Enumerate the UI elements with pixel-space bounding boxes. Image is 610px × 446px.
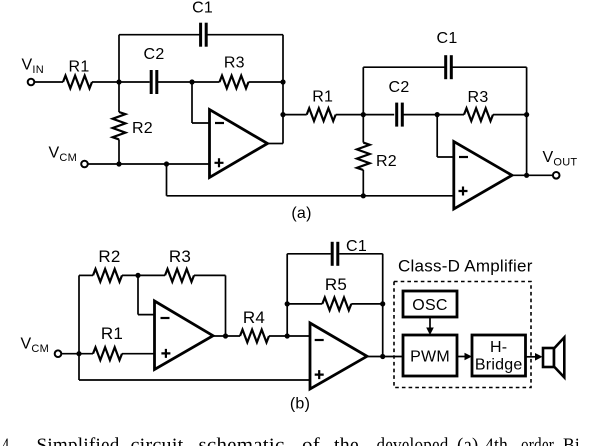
wire R1 to C2 (a, stage 2) (336, 114, 395, 116)
svg-text:C1: C1 (346, 238, 367, 255)
wire R4 to U4 inverting input (269, 335, 310, 337)
svg-text:Bi: Bi (563, 435, 580, 446)
junction node B (a, stage 1 inverting node) (189, 79, 194, 84)
U1 inverting pin mark (215, 122, 224, 124)
terminal VOUT (553, 172, 560, 179)
svg-text:R4: R4 (243, 308, 265, 327)
resistor R2 (a, stage 1) (113, 112, 126, 139)
junction feedback node (a, stage 2) (524, 112, 529, 117)
resistor R1 (b) (93, 347, 122, 360)
svg-text:developed: developed (377, 435, 449, 446)
wire C1 rail left (a, stage 2) (363, 66, 445, 68)
terminal VCM (b) (55, 350, 62, 357)
svg-text:OSC: OSC (412, 297, 447, 314)
wire feedback vertical (a, stage 2) (526, 67, 528, 175)
junction R2 bottom at VCM rail (116, 161, 121, 166)
svg-text:VIN: VIN (22, 57, 44, 77)
wire VCM rail to op-amp U1 noninverting input (88, 163, 210, 165)
dashed boundary Class-D Amplifier (394, 282, 531, 388)
svg-text:schematic: schematic (199, 435, 285, 446)
wire C2 to R3 (158, 81, 220, 83)
svg-text:C2: C2 (389, 79, 410, 96)
svg-text:R2: R2 (98, 247, 120, 266)
wire R3 feedback vertical (b) (225, 275, 227, 336)
terminal VCM (a) (81, 161, 88, 168)
wire VCM to node (b) (61, 353, 93, 355)
wire PWM to H-Bridge arrow (457, 356, 466, 358)
svg-text:of: of (302, 435, 320, 446)
junction U1 output to stage 2 (280, 112, 285, 117)
svg-text:R2: R2 (376, 153, 397, 170)
wire OSC to PWM arrow (429, 317, 431, 329)
resistor R1 (a, stage 1) (63, 76, 92, 89)
svg-text:4.: 4. (2, 435, 13, 446)
terminal VIN (28, 79, 35, 86)
wire VCM node down to bottom rail (b) (78, 354, 80, 380)
svg-text:VCM: VCM (49, 145, 78, 165)
svg-text:4th: 4th (485, 435, 508, 446)
op-amp U3 (b) (155, 301, 214, 370)
junction VCM node (b) (76, 351, 81, 356)
wire H-Bridge to speaker arrow (526, 356, 537, 358)
U4 noninverting pin mark (315, 370, 324, 379)
resistor R3 (a, stage 1) (220, 76, 249, 89)
wire R2 left lead (b) (79, 274, 93, 276)
resistor R2 (a, stage 2) bottom lead (362, 170, 364, 196)
wire VCM node up to R2 (b) (78, 275, 80, 353)
block H-Bridge (472, 335, 526, 376)
svg-text:C2: C2 (144, 46, 165, 63)
wire C1 rail right lead (b) (339, 253, 383, 255)
svg-text:R1: R1 (312, 89, 333, 106)
resistor R1 (a, stage 2) (307, 108, 336, 121)
svg-text:order: order (521, 435, 554, 446)
wire R3 to feedback node (a, stage 2) (493, 114, 527, 116)
wire R3 to feedback node (249, 81, 284, 83)
svg-text:R3: R3 (224, 55, 245, 72)
junction node A (a, stage 2 input node) (361, 112, 366, 117)
svg-text:Simplified: Simplified (37, 435, 120, 446)
svg-text:VOUT: VOUT (543, 149, 578, 169)
block PWM (403, 335, 457, 376)
wire node A up to C1 rail (a, stage 2) (362, 67, 364, 114)
wire U2 output to VOUT (512, 174, 553, 176)
wire into U1 inverting input (192, 122, 210, 124)
junction U2 output feedback (524, 173, 529, 178)
svg-text:VCM: VCM (21, 336, 50, 356)
op-amp U2 (a, stage 2) (454, 142, 512, 210)
junction R2-R3 node (b) (135, 273, 140, 278)
svg-text:R1: R1 (101, 324, 123, 343)
resistor R2 (a, stage 1) bottom lead (118, 139, 120, 164)
wire into U2 inverting input (437, 156, 454, 158)
wire R1 to C2 (92, 81, 150, 83)
wire C1 rail left (119, 34, 200, 36)
wire C1 rail left lead (b) (287, 253, 331, 255)
wire R1 to U3 noninverting input (122, 353, 155, 355)
resistor R2 (a, stage 1) top lead (118, 82, 120, 112)
capacitor C1 (a, stage 1) (199, 23, 202, 47)
capacitor C2 (a, stage 1) (150, 70, 153, 94)
wire VCM branch down (166, 164, 168, 196)
capacitor C1 (a, stage 2) (444, 55, 447, 79)
junction node A (a, stage 1 input node) (116, 79, 121, 84)
op-amp U4 (b) (310, 323, 367, 389)
wire bottom rail (b) (79, 379, 310, 381)
wire inverting node down to U2 (436, 115, 438, 157)
junction R2 bottom at bottom rail (361, 193, 366, 198)
junction node B (a, stage 2 inverting node) (435, 112, 440, 117)
resistor R3 (a, stage 2) (464, 108, 493, 121)
U1 noninverting pin mark (215, 158, 224, 167)
svg-text:(a): (a) (291, 205, 311, 222)
resistor R2 (a, stage 2) (357, 143, 370, 170)
wire VCM bottom rail to stage 2 (167, 195, 454, 197)
wire inverting node down to U1 (191, 82, 193, 123)
junction R5 right node (b) (380, 301, 385, 306)
svg-text:R3: R3 (169, 247, 191, 266)
wire VIN to R1 (34, 81, 63, 83)
junction R5 left node (b) (285, 301, 290, 306)
junction VCM branch node (164, 161, 169, 166)
wire R2 to R3 (b) (122, 274, 165, 276)
svg-text:Class-D Amplifier: Class-D Amplifier (398, 257, 533, 276)
svg-text:PWM: PWM (410, 349, 450, 366)
wire C1 rail right (a, stage 2) (452, 66, 526, 68)
U2 noninverting pin mark (459, 187, 468, 196)
U4 inverting pin mark (315, 339, 324, 341)
svg-text:R3: R3 (468, 89, 489, 106)
capacitor C1 (b) (331, 242, 334, 266)
wire R5 right lead (b) (351, 303, 382, 305)
resistor R2 (a, stage 2) top lead (362, 115, 364, 143)
junction R4-U4 node (b) (285, 333, 290, 338)
wire node A up to C1 rail (118, 35, 120, 82)
wire right feedback vertical (b) (382, 254, 384, 357)
svg-text:the: the (334, 435, 359, 446)
wire U4 output to PWM (367, 356, 403, 358)
svg-text:H-: H- (490, 339, 507, 356)
U2 inverting pin mark (459, 156, 468, 158)
wire R5 left lead (b) (287, 303, 322, 305)
svg-text:R2: R2 (132, 120, 153, 137)
svg-text:(b): (b) (290, 396, 310, 413)
wire stage1 output to R1 stage 2 (283, 114, 307, 116)
op-amp U1 (a, stage 1) (210, 110, 268, 178)
wire into U3 inverting input (138, 314, 155, 316)
wire C2 to R3 (a, stage 2) (403, 114, 464, 116)
junction U4 output feedback node (380, 354, 385, 359)
speaker (543, 348, 554, 367)
wire R4 node up to R5 (b) (286, 254, 288, 336)
wire C1 rail right (207, 34, 283, 36)
wire U1 output (268, 143, 284, 145)
svg-text:R5: R5 (325, 275, 347, 294)
resistor R4 (b) (240, 330, 269, 343)
resistor R2 (b) (93, 269, 122, 282)
wire feedback vertical (a, stage 1) (282, 35, 284, 144)
U3 noninverting pin mark (161, 349, 170, 358)
svg-text:C1: C1 (437, 30, 458, 47)
capacitor C2 (a, stage 2) (395, 103, 398, 127)
svg-text:C1: C1 (192, 0, 213, 16)
U3 inverting pin mark (161, 317, 170, 319)
resistor R3 (b) (165, 269, 194, 282)
svg-text:(a): (a) (457, 435, 479, 446)
wire R2-R3 node down to U3 (137, 275, 139, 314)
resistor R5 (b) (322, 298, 351, 311)
junction U3 output node (223, 333, 228, 338)
wire U3 output (213, 335, 240, 337)
svg-text:circuit: circuit (131, 435, 184, 446)
svg-text:Bridge: Bridge (475, 357, 523, 374)
wire R3 to feedback corner (b) (194, 274, 226, 276)
svg-text:R1: R1 (69, 59, 90, 76)
block OSC (403, 291, 457, 317)
junction feedback node (a, stage 1) (280, 79, 285, 84)
